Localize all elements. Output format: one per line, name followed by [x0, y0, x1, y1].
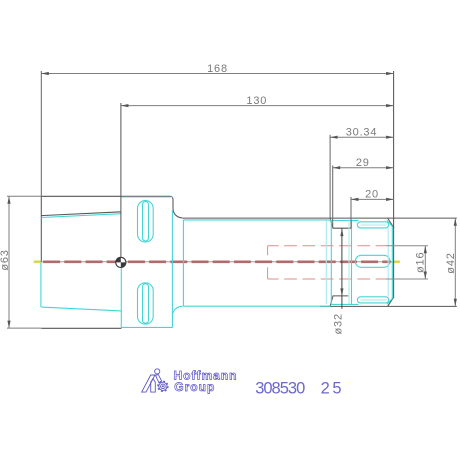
centerline yellow end left: [34, 260, 41, 263]
cyan flange top faint: [121, 196, 172, 198]
svg-text:168: 168: [207, 63, 228, 75]
dimension texts: [0, 63, 457, 334]
dim 30.34 line: [330, 136, 394, 138]
neck bottom line: [320, 305, 457, 307]
arrow 20 left: [351, 198, 359, 201]
logo gear inner flower: [161, 384, 166, 389]
logo gear teeth: [158, 381, 168, 391]
logo gear hub: [162, 385, 164, 387]
cyan neck cap: [182, 220, 184, 306]
cyan part contour: [41, 197, 392, 327]
centerline: [41, 260, 391, 263]
nut slot bottom: [357, 297, 388, 303]
logo wordmark: [174, 369, 238, 394]
flange slot top inner: [143, 202, 149, 242]
neck top line: [182, 217, 457, 219]
flange top with corner and fillet: [41, 196, 182, 218]
ext 20: [350, 197, 352, 228]
nut top edge: [331, 219, 358, 221]
dim 130 line: [121, 105, 394, 107]
cyan bottom fillet: [172, 306, 182, 316]
dim ø32 line: [341, 228, 343, 308]
arrow ø32 bottom: [340, 288, 343, 296]
flange slot top outer: [138, 201, 154, 242]
arrow 130 left: [121, 104, 128, 107]
cyan flange bottom: [121, 326, 172, 328]
svg-text:130: 130: [246, 95, 267, 107]
arrow ø32 top: [340, 229, 343, 237]
svg-text:ø32: ø32: [333, 313, 345, 334]
cyan neck top: [183, 219, 331, 221]
gray part contour: [41, 71, 457, 328]
arrow 30.34 right: [386, 136, 394, 139]
cyan taper top: [41, 214, 121, 218]
ext ø63 bottom: [7, 327, 41, 329]
nut faint facet line: [387, 228, 389, 297]
stub chamfer bottom: [330, 296, 348, 307]
hidden bore ø16 red dashed rectangle: [268, 246, 386, 279]
nut slot top midline: [361, 224, 387, 226]
nut slot middle: [355, 255, 390, 267]
left edge: [40, 196, 42, 261]
cyan flange left edge: [120, 268, 122, 328]
nut ring groove: [351, 220, 353, 304]
center mark symbol: [116, 257, 126, 267]
arrows: [7, 72, 457, 328]
flange slot bottom outer: [138, 283, 154, 324]
arrow 20 right: [386, 198, 394, 201]
ext 30.34: [329, 135, 331, 218]
dim ø63 line: [8, 196, 10, 328]
ext ø16 top: [385, 245, 428, 247]
cyan neck bottom: [183, 305, 330, 307]
svg-text:ø42: ø42: [445, 252, 457, 273]
dimension lines and texts: [7, 71, 455, 328]
svg-text:29: 29: [356, 157, 370, 169]
cyan left cap: [40, 262, 42, 307]
arrow ø42 top: [454, 218, 457, 226]
ext 168 left: [40, 71, 42, 196]
arrow 168 left: [41, 72, 49, 75]
flange slot bottom inner: [143, 284, 149, 324]
nut slot top: [357, 222, 388, 228]
right edge / extension line: [393, 71, 395, 297]
arrow 168 right: [386, 72, 394, 75]
taper slant top: [41, 212, 121, 216]
logo head: [155, 369, 160, 374]
nut right chamfer bottom: [388, 297, 394, 307]
dim 20 line: [351, 198, 394, 200]
logo gear ring: [159, 382, 167, 390]
nut right chamfer top: [388, 218, 394, 228]
ext 29: [332, 165, 334, 227]
svg-text:20: 20: [365, 189, 379, 201]
arrow ø63 top: [7, 196, 10, 204]
dim 168 line: [41, 73, 393, 75]
dim ø42 line: [454, 218, 456, 306]
nut chamfer bottom right: [387, 299, 392, 305]
ext ø63 top: [7, 195, 41, 197]
logo big bar: [142, 375, 155, 392]
logo small leg: [151, 379, 156, 393]
nut faint line left: [325, 221, 327, 305]
svg-text:308530: 308530: [255, 379, 305, 397]
nut slot bottom midline: [361, 299, 387, 301]
svg-text:ø63: ø63: [0, 249, 11, 270]
svg-text:Group: Group: [174, 380, 215, 394]
nut bottom edge: [331, 303, 358, 305]
logo right bar: [156, 375, 162, 383]
arrow ø42 bottom: [454, 299, 457, 307]
ext ø16 bottom: [385, 278, 428, 280]
dim ø16 line: [424, 246, 426, 279]
nut left edge: [330, 220, 332, 304]
svg-text:25: 25: [321, 379, 345, 397]
Hoffmann Group logo: [142, 369, 168, 392]
arrow ø63 bottom: [7, 321, 10, 329]
svg-text:ø16: ø16: [414, 252, 426, 273]
arrow 29 right: [386, 166, 394, 169]
ext 130: [120, 103, 122, 257]
centerline gray underlay: [34, 261, 400, 263]
bottom edge: [41, 327, 121, 329]
arrow 30.34 left: [330, 136, 338, 139]
cyan taper bottom: [41, 307, 121, 311]
dim 29 line: [333, 167, 394, 169]
cyan flange right edge: [171, 210, 173, 327]
stub chamfer top: [330, 218, 351, 228]
arrow ø16 top: [424, 246, 427, 254]
arrow 29 left: [333, 166, 341, 169]
nut faint ring: [348, 220, 350, 304]
nut chamfer top right: [387, 220, 392, 226]
arrow 130 right: [386, 104, 394, 107]
svg-text:30.34: 30.34: [346, 127, 378, 139]
centerline yellow end right: [393, 260, 400, 263]
nut right edge: [391, 226, 393, 298]
arrow ø16 bottom: [424, 272, 427, 280]
